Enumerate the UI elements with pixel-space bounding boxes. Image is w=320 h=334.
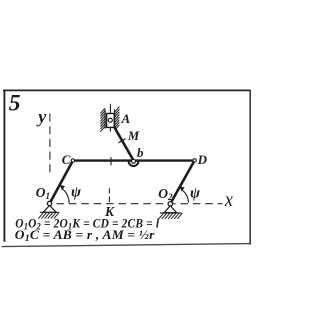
pin joint b [132, 159, 136, 163]
pin joint D [193, 159, 196, 162]
pin joint C [71, 159, 74, 162]
midpoint tick on bar CD above K [110, 157, 112, 165]
coupler bar CD [73, 159, 195, 161]
svg-text:A: A [121, 111, 131, 126]
ground hatching at O1 [38, 213, 59, 219]
slider block at A [107, 114, 115, 128]
svg-text:D: D [197, 152, 208, 167]
svg-text:ψ: ψ [190, 185, 201, 201]
link AB (rod from slider A to joint b) [110, 120, 133, 159]
ground line at O2 [160, 212, 182, 214]
svg-text:ψ: ψ [71, 184, 82, 200]
svg-text:5: 5 [9, 90, 21, 116]
arrowhead of psi arc at O2 [180, 186, 185, 191]
pivot pin O1 [47, 201, 51, 205]
svg-text:b: b [137, 145, 144, 160]
svg-text:M: M [127, 129, 140, 143]
ground hatching at O2 [159, 213, 183, 219]
node K vertical dash marks [108, 188, 110, 202]
angle arc psi at O1 [62, 188, 70, 203]
svg-text:x: x [224, 187, 233, 211]
angle arc psi at O2 [182, 190, 189, 203]
crank link O2-D [170, 160, 194, 203]
svg-text:C: C [62, 152, 71, 167]
frame top border [3, 89, 251, 91]
midpoint tick M on rod AB [119, 139, 126, 143]
crank link O1-C [50, 161, 73, 204]
given data text line 2 [15, 227, 155, 244]
pivot support triangle O1 [43, 205, 56, 212]
pin A [108, 118, 112, 122]
frame bottom rule [2, 244, 251, 247]
arrowhead of psi arc at O1 [60, 185, 65, 190]
frame left border [3, 90, 5, 242]
slider guide left hatching [100, 108, 105, 132]
pivot support triangle O2 [164, 206, 176, 213]
y-axis dashed line [49, 114, 51, 177]
eye cup of rod AB around joint b [129, 161, 139, 166]
slider guide left wall [104, 109, 106, 128]
x-axis label x [224, 187, 233, 211]
frame right border [249, 90, 251, 245]
slider guide right hatching [115, 107, 120, 131]
slider guide right wall [114, 109, 116, 128]
slider guide centerline [109, 104, 111, 132]
given data text line 1 [15, 216, 159, 232]
x-axis dashed line [57, 203, 223, 205]
pivot pin O2 [168, 202, 172, 206]
svg-text:O1C = AB = r , AM = ½r: O1C = AB = r , AM = ½r [15, 227, 155, 244]
svg-text:y: y [36, 107, 47, 127]
ground line at O1 [40, 211, 60, 213]
